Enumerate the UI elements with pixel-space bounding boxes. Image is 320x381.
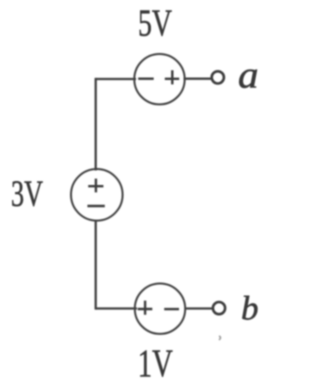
voltage source 3V (circle)	[71, 169, 123, 221]
wire: left vertical upper segment	[95, 78, 97, 171]
terminal a (open circle)	[212, 71, 224, 83]
stray scan mark near b	[219, 336, 221, 340]
1V minus sign	[164, 308, 179, 310]
svg-text:1V: 1V	[138, 342, 173, 381]
svg-text:b: b	[241, 291, 259, 328]
3V plus sign	[88, 179, 103, 193]
wire: 5V source to terminal a	[184, 78, 213, 80]
svg-text:3V: 3V	[11, 174, 43, 215]
wire: bottom horizontal from corner to 1V source	[96, 307, 137, 309]
3V minus sign	[87, 205, 104, 207]
1V plus sign	[138, 301, 153, 315]
voltage source 5V (circle)	[134, 54, 184, 104]
terminal b (open circle)	[213, 302, 225, 314]
svg-text:a: a	[238, 54, 259, 96]
svg-text:5V: 5V	[138, 3, 172, 45]
voltage source 1V (circle)	[135, 284, 185, 334]
5V plus sign	[165, 70, 179, 84]
5V minus sign	[138, 77, 154, 79]
wire: top horizontal from corner to 5V source	[96, 78, 136, 80]
wire: left vertical lower segment	[95, 220, 97, 310]
wire: 1V source to terminal b	[185, 307, 214, 309]
